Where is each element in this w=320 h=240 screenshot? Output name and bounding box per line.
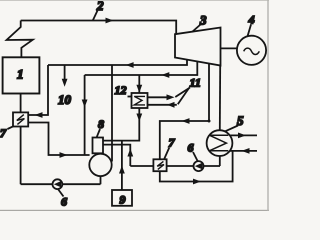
sigma symbol inside box 12 [134, 96, 145, 105]
boiler zigzag between steam line and vessel 1 [7, 21, 33, 58]
vessel box 1 [3, 57, 40, 93]
svg-text:4: 4 [248, 13, 255, 27]
svg-text:12: 12 [115, 83, 127, 97]
wire: network water into condenser [230, 150, 257, 152]
wire: lower manifold drop to deaerator [84, 75, 86, 155]
svg-text:8: 8 [98, 117, 104, 131]
pointer for label 6 left [58, 190, 63, 197]
deaerator column 8 [93, 138, 104, 154]
wire: network supply stub 11 (upper) [148, 96, 170, 98]
condenser 5 [207, 130, 233, 156]
sigma symbol inside condenser 5 [210, 135, 229, 150]
pointer for label 7 right [164, 148, 169, 159]
wire: bottom feedwater line [21, 183, 101, 185]
deaerator tank (circle) 8 [89, 154, 111, 176]
pointer for label 5 [225, 126, 238, 132]
wire: extraction branch 10 [64, 65, 66, 81]
pointer for label 7 left [8, 126, 14, 129]
wire: extraction manifold lower [85, 61, 198, 75]
wire: network return stub 11 (lower) [148, 104, 177, 106]
svg-text:11: 11 [190, 76, 201, 90]
arrow toward deaerator [60, 152, 68, 158]
wire: main condensate line [130, 165, 220, 167]
wire: network water out of condenser [230, 134, 257, 136]
wire: extraction manifold upper (to heater 7 left) [48, 60, 187, 65]
svg-text:9: 9 [120, 193, 126, 207]
svg-text:7: 7 [169, 136, 176, 150]
wire: heater 7 left down to bottom line [20, 127, 22, 185]
arrow into heater 7 left [35, 112, 43, 118]
wire: heater 7 left outlet to deaerator tank [28, 123, 89, 156]
zigzag symbol inside heater 7 left [17, 115, 25, 125]
turbine 3 [175, 28, 221, 66]
wire: condensate to deaerator column (line L2) [103, 145, 130, 166]
wire: turbine exhaust into condenser [219, 66, 221, 131]
arrow on steam line [106, 18, 114, 24]
wire: extraction to heater 7 right [160, 64, 209, 159]
pointer for label 6 right [193, 152, 198, 161]
svg-text:1: 1 [17, 67, 24, 82]
wire: box1 bottom to heater 7 left [20, 94, 22, 113]
pointer for label 4 [248, 25, 251, 37]
pointer for label 11 upper [175, 88, 190, 98]
pointer for label 2 [93, 11, 98, 21]
svg-text:6: 6 [61, 195, 67, 209]
pointer for label 8 [97, 129, 100, 137]
pointer dash for label 12 [128, 96, 132, 98]
wire: feed into network heater 12 [138, 75, 140, 93]
pointer for label 11 lower [178, 88, 189, 104]
generator 4 [237, 36, 266, 65]
make-up source box 9 [112, 190, 132, 206]
wire: heater 7 right drain loop to condenser inlet [160, 151, 233, 182]
wire: make-up from box 9 to deaerator [121, 141, 123, 190]
pump 6 (left) [53, 179, 63, 189]
wire: condenser bottom to condensate line [219, 156, 221, 167]
pointer for label 3 [192, 25, 201, 33]
junction dot [208, 120, 211, 123]
zigzag symbol inside heater 7 right [157, 161, 164, 169]
svg-text:7: 7 [0, 126, 7, 140]
heat exchanger 7 (right) [153, 159, 166, 171]
heat exchanger 7 (left) [13, 112, 28, 126]
generator wave symbol [244, 48, 260, 54]
scan edge artifacts [0, 0, 269, 1]
wire: heater 12 drain to deaerator column [103, 108, 139, 141]
wire: feed into heater 7 left [28, 65, 48, 115]
arrow on lower manifold [161, 72, 169, 78]
generator 4 shaft [221, 47, 237, 49]
wire: deaerator tank bottom riser [100, 176, 102, 185]
arrow on upper manifold [126, 62, 134, 68]
svg-text:10: 10 [58, 92, 72, 107]
pump 6 (right) [194, 161, 204, 171]
wire: main steam line 2 [21, 21, 177, 35]
wire: drop from upper manifold to deaerator tank right [111, 65, 113, 162]
network heater box 12 [132, 93, 148, 108]
